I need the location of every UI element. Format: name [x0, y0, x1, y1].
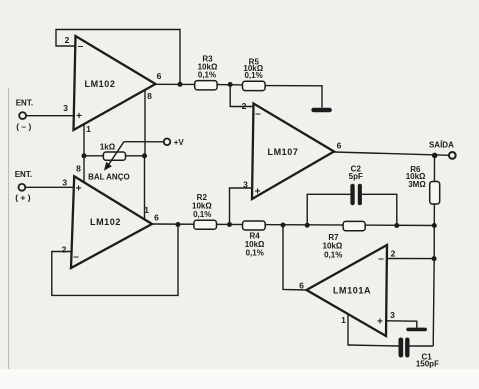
svg-text:ENT.: ENT. [16, 99, 33, 108]
wire pot wiper to +V [124, 141, 164, 143]
svg-text:6: 6 [337, 141, 342, 151]
svg-text:1: 1 [341, 315, 346, 325]
svg-text:LM101A: LM101A [333, 286, 371, 296]
svg-text:+V: +V [174, 138, 185, 147]
op-amp U2 LM107 [252, 104, 334, 200]
node R3-R5 junction [228, 82, 233, 87]
svg-text:8: 8 [147, 91, 152, 101]
wire ENT(-) to U1 pin3 [26, 115, 75, 117]
svg-text:1kΩ: 1kΩ [100, 142, 116, 151]
svg-text:6: 6 [157, 71, 162, 81]
wire ENT(+) to U3 pin3 [25, 186, 74, 188]
wire U2 pin3 to R2R4 junction [230, 188, 253, 225]
wire U4 output to middle row [283, 225, 307, 290]
wire pot right column (U1 pin8 to U3 pin1) [144, 156, 146, 220]
svg-text:2: 2 [242, 101, 247, 111]
pot wiper arrow [109, 142, 124, 165]
resistor R2 [194, 220, 217, 229]
ground G2 [406, 328, 427, 332]
svg-text:( – ): ( – ) [16, 121, 31, 131]
resistor R4 [243, 221, 266, 230]
ground G1 [311, 108, 332, 112]
capacitor C1 [399, 338, 404, 358]
node U1 output junction [178, 82, 183, 87]
svg-text:3MΩ: 3MΩ [408, 180, 426, 189]
svg-text:6: 6 [154, 213, 159, 223]
svg-text:( + ): ( + ) [15, 192, 31, 202]
wire U3 feedback loop output to pin2 [52, 225, 178, 296]
svg-text:0,1%: 0,1% [244, 71, 262, 80]
node pot right [142, 153, 147, 158]
resistor R3 [195, 81, 217, 90]
node right column middle row [432, 223, 437, 228]
svg-text:0,1%: 0,1% [193, 210, 211, 219]
svg-text:3: 3 [390, 310, 395, 320]
node U3 output junction [176, 222, 181, 227]
node row to C2 left [305, 223, 310, 228]
op-amp U1 LM102 (top buffer) [74, 36, 156, 130]
svg-text:10kΩ: 10kΩ [323, 242, 343, 251]
svg-text:2: 2 [391, 249, 396, 259]
wire U4 pin2 to right column [387, 258, 434, 260]
svg-text:–: – [378, 254, 384, 265]
resistor R5 [243, 81, 266, 90]
wire R3R5 junction to U2 pin2 [230, 85, 253, 107]
svg-text:8: 8 [76, 164, 81, 174]
node pot left [82, 153, 87, 158]
svg-text:2: 2 [65, 35, 70, 45]
op-amp U4 LM101A (pointing left) [307, 245, 388, 336]
wire U1 feedback loop output to pin2 [56, 30, 180, 85]
svg-text:0,1%: 0,1% [198, 70, 216, 79]
svg-text:5pF: 5pF [349, 172, 363, 181]
scan page white margin bottom [0, 370, 479, 389]
svg-text:1: 1 [86, 124, 91, 134]
terminal +V [164, 139, 171, 146]
svg-text:LM107: LM107 [267, 147, 298, 157]
svg-text:0,1%: 0,1% [324, 250, 342, 259]
svg-text:+: + [377, 317, 383, 328]
node row to C2 right [394, 223, 399, 228]
node output-R6 junction [432, 153, 438, 159]
wire U1 output to R3 [156, 83, 195, 85]
potentiometer P1 1k BALANCO [84, 155, 145, 157]
node R2-R4 junction [227, 222, 232, 227]
svg-text:0,1%: 0,1% [246, 249, 264, 258]
terminal ENT(+) [19, 184, 26, 191]
wire U4 pin1 stub [347, 314, 349, 346]
svg-text:+: + [255, 186, 261, 197]
op-amp U3 LM102 (bottom buffer) [71, 176, 152, 268]
wire bottom row to C1 [348, 345, 399, 346]
wire right column [433, 155, 434, 346]
svg-text:+: + [76, 183, 82, 194]
svg-text:1: 1 [144, 205, 149, 215]
terminal ENT(-) [19, 112, 26, 119]
svg-text:LM102: LM102 [84, 79, 115, 89]
wire R3 to R5 [217, 84, 242, 86]
svg-text:BAL ANÇO: BAL ANÇO [88, 172, 130, 181]
svg-text:3: 3 [243, 179, 248, 189]
svg-text:ENT.: ENT. [15, 170, 32, 179]
wire C2 left branch [307, 194, 350, 225]
svg-text:2: 2 [62, 244, 67, 254]
scan border left [8, 88, 10, 369]
svg-text:3: 3 [62, 177, 67, 187]
wire C2 right branch [362, 194, 397, 225]
wire middle row [152, 224, 434, 226]
svg-text:6: 6 [299, 281, 304, 291]
terminal SAIDA [449, 152, 456, 159]
wire U1 pin1 stub [83, 124, 85, 156]
resistor R6 [430, 182, 440, 205]
capacitor C2 [350, 184, 354, 206]
svg-text:150pF: 150pF [416, 360, 439, 369]
node row to U4 output [281, 223, 286, 228]
wire U2 output to SAIDA [334, 152, 449, 155]
svg-text:SAÍDA: SAÍDA [429, 141, 454, 150]
wire pot left column (U1 pin1 to U3 pin8) [83, 156, 85, 183]
resistor R7 [343, 221, 365, 230]
wire C1 to right column [410, 345, 434, 347]
svg-text:–: – [73, 251, 79, 262]
svg-text:3: 3 [63, 103, 68, 113]
svg-text:–: – [255, 109, 261, 120]
node right column pin2 row [432, 256, 437, 261]
svg-text:+: + [76, 111, 82, 122]
svg-text:LM102: LM102 [90, 217, 121, 227]
wire U1 pin8 stub [144, 90, 146, 156]
svg-text:–: – [78, 41, 84, 52]
wire U4 pin3 to ground [387, 321, 417, 328]
wire R5 to ground [265, 86, 322, 108]
